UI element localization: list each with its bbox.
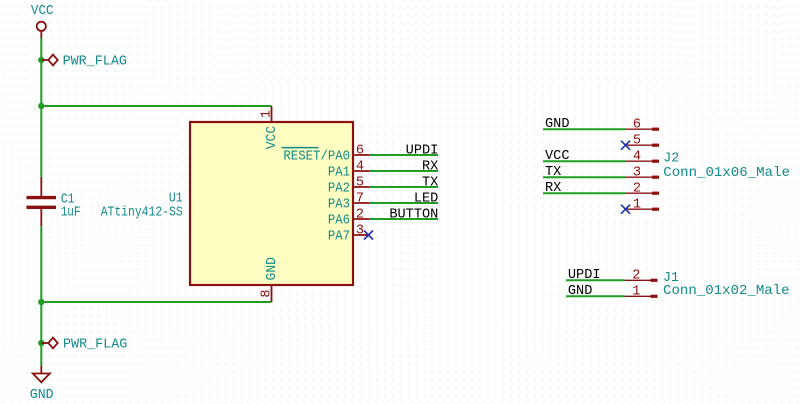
svg-text:2: 2 bbox=[632, 268, 640, 283]
svg-text:TX: TX bbox=[422, 176, 438, 191]
svg-text:3: 3 bbox=[356, 223, 364, 238]
svg-text:GND: GND bbox=[30, 388, 54, 403]
svg-text:2: 2 bbox=[356, 207, 364, 222]
svg-text:PWR_FLAG: PWR_FLAG bbox=[63, 55, 127, 70]
svg-text:7: 7 bbox=[356, 191, 364, 206]
svg-text:VCC: VCC bbox=[265, 126, 280, 150]
svg-text:3: 3 bbox=[633, 165, 641, 180]
svg-text:GND: GND bbox=[568, 284, 592, 299]
svg-text:Conn_01x06_Male: Conn_01x06_Male bbox=[663, 166, 790, 181]
svg-text:2: 2 bbox=[633, 181, 641, 196]
svg-text:1uF: 1uF bbox=[61, 205, 81, 220]
svg-text:8: 8 bbox=[260, 289, 275, 297]
svg-text:PA1: PA1 bbox=[328, 166, 350, 181]
svg-text:RX: RX bbox=[545, 181, 561, 196]
svg-text:4: 4 bbox=[356, 159, 364, 174]
svg-text:VCC: VCC bbox=[545, 149, 569, 164]
svg-text:GND: GND bbox=[545, 117, 569, 132]
svg-text:J2: J2 bbox=[663, 152, 679, 167]
svg-text:BUTTON: BUTTON bbox=[389, 208, 438, 223]
svg-text:1: 1 bbox=[632, 284, 640, 299]
svg-text:4: 4 bbox=[633, 149, 641, 164]
svg-text:6: 6 bbox=[633, 117, 641, 132]
svg-text:VCC: VCC bbox=[31, 4, 54, 19]
svg-text:LED: LED bbox=[414, 192, 438, 207]
svg-text:RESET/PA0: RESET/PA0 bbox=[283, 150, 350, 165]
svg-text:1: 1 bbox=[633, 197, 641, 212]
svg-text:ATtiny412-SS: ATtiny412-SS bbox=[101, 205, 183, 220]
svg-text:5: 5 bbox=[633, 133, 641, 148]
svg-text:PA6: PA6 bbox=[328, 214, 350, 229]
svg-text:PWR_FLAG: PWR_FLAG bbox=[63, 338, 127, 353]
svg-text:6: 6 bbox=[356, 143, 364, 158]
svg-text:PA7: PA7 bbox=[328, 230, 350, 245]
svg-text:UPDI: UPDI bbox=[406, 144, 439, 159]
svg-text:1: 1 bbox=[260, 110, 275, 118]
svg-text:RX: RX bbox=[422, 160, 438, 175]
svg-text:PA2: PA2 bbox=[328, 182, 350, 197]
svg-text:5: 5 bbox=[356, 175, 364, 190]
svg-text:TX: TX bbox=[545, 165, 561, 180]
svg-text:GND: GND bbox=[265, 257, 280, 281]
svg-text:Conn_01x02_Male: Conn_01x02_Male bbox=[663, 284, 790, 299]
svg-text:U1: U1 bbox=[169, 191, 183, 206]
svg-text:UPDI: UPDI bbox=[568, 268, 601, 283]
svg-text:PA3: PA3 bbox=[328, 198, 350, 213]
